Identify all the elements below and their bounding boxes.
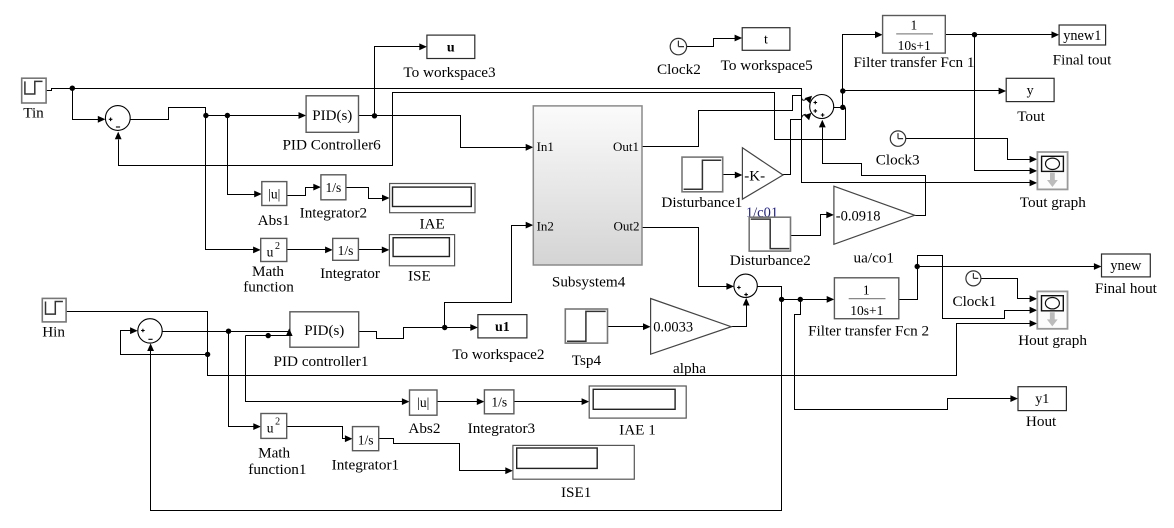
- svg-text:Filter transfer Fcn 2: Filter transfer Fcn 2: [808, 323, 929, 340]
- wire: branch down to Abs2: [246, 336, 410, 406]
- label Hin: [42, 324, 65, 341]
- label Hout: [1026, 413, 1057, 430]
- wire: Sum2 output up to Filter transfer Fcn 1: [843, 31, 883, 107]
- label Final hout: [1095, 280, 1158, 297]
- wire: Hin branch to Sum4 + input: [121, 327, 208, 354]
- To workspace2 block u1: [478, 315, 527, 338]
- label Clock1: [952, 293, 996, 310]
- svg-text:-K-: -K-: [744, 168, 765, 184]
- wire: Sum1 output to PID Controller6 input: [131, 108, 307, 120]
- svg-text:In2: In2: [537, 218, 554, 233]
- label ua/co1: [854, 249, 894, 266]
- wire: gain alpha output to Sum3 bottom + input: [732, 298, 750, 327]
- wire: Abs1 to Integrator2: [287, 184, 321, 196]
- label Disturbance1: [661, 194, 742, 211]
- svg-text:function1: function1: [248, 461, 306, 478]
- wire: Integrator to ISE display: [359, 247, 390, 254]
- ynew1 block Final tout: [1059, 25, 1106, 45]
- wire: Disturbance2 to gain -0.0918: [791, 212, 834, 236]
- junction dot on ynew1 line: [972, 32, 977, 37]
- svg-text:Hout: Hout: [1026, 413, 1057, 430]
- svg-text:10s+1: 10s+1: [850, 303, 883, 318]
- svg-text:Integrator3: Integrator3: [468, 420, 535, 437]
- junction dot on lower segment: [266, 333, 271, 338]
- label 1/c01: [746, 205, 778, 221]
- arrowhead into PID controller1 input: [286, 328, 293, 336]
- junction dot Sum1-out branch B: [225, 113, 230, 118]
- svg-text:y: y: [1027, 84, 1034, 99]
- step source Disturbance1: [682, 157, 723, 192]
- label Hout graph: [1018, 332, 1087, 349]
- svg-text:ISE1: ISE1: [561, 484, 591, 501]
- svg-text:To workspace2: To workspace2: [452, 346, 544, 363]
- label alpha: [673, 360, 706, 377]
- label Disturbance2: [730, 252, 811, 269]
- svg-text:To workspace5: To workspace5: [721, 57, 813, 74]
- svg-text:1/s: 1/s: [326, 180, 342, 195]
- ISE1 display: [513, 445, 634, 479]
- PID controller1 block: [290, 312, 359, 347]
- gain alpha triangle: [651, 299, 732, 355]
- svg-text:1: 1: [863, 283, 870, 298]
- svg-text:Clock2: Clock2: [657, 61, 701, 78]
- wire: Disturbance1 to gain -K-: [723, 172, 743, 179]
- wire: Integrator2 to IAE display: [346, 188, 390, 202]
- junction dot Sum2 output: [840, 105, 845, 110]
- Math function1 u2 block: [261, 414, 287, 439]
- wire: Clock2 to t To workspace5: [687, 35, 743, 47]
- svg-text:Out2: Out2: [614, 218, 640, 233]
- label Integrator1: [332, 457, 399, 474]
- label Tsp4: [572, 352, 602, 369]
- svg-text:Abs2: Abs2: [408, 420, 440, 437]
- label Filter transfer Fcn 2: [808, 323, 929, 340]
- wire: PID controller1 output to u1 To workspace2: [359, 324, 478, 338]
- y block Tout: [1006, 78, 1054, 101]
- svg-text:1/s: 1/s: [358, 433, 374, 448]
- junction dot Sum4 output branch: [226, 329, 231, 334]
- svg-text:t: t: [764, 33, 768, 48]
- Integrator1 block: [353, 427, 379, 451]
- svg-text:u: u: [447, 41, 455, 56]
- wire: Sum4 output to PID controller1 input: [163, 331, 289, 333]
- junction dot Hout to y1 branch: [798, 297, 803, 302]
- label IAE 1: [619, 422, 656, 439]
- svg-text:Tin: Tin: [23, 105, 44, 122]
- wire: Math function to Integrator: [287, 247, 333, 254]
- wire: PID Controller6 output to Subsystem4 In1: [359, 116, 534, 151]
- label Tin: [23, 105, 44, 122]
- svg-text:Tsp4: Tsp4: [572, 352, 602, 369]
- sum junction Sum3: [734, 274, 757, 297]
- junction dot on vertical to y block: [840, 88, 845, 93]
- svg-text:Clock1: Clock1: [952, 293, 996, 310]
- junction dot Sum1-out branch A: [203, 113, 208, 118]
- svg-text:Integrator1: Integrator1: [332, 457, 399, 474]
- Integrator3 block: [484, 390, 514, 414]
- svg-text:2: 2: [275, 241, 280, 252]
- Abs1 block: [262, 182, 287, 206]
- svg-text:IAE: IAE: [419, 216, 444, 233]
- svg-text:u: u: [267, 420, 274, 435]
- wire: branch up to Subsystem4 In2: [445, 222, 534, 328]
- label Final tout: [1053, 52, 1112, 69]
- wire: Hin output to junction, long line to Hout graph bottom input: [67, 312, 1038, 376]
- wire: Tin output with junction, long set-point line to Tout graph bottom input: [47, 89, 1038, 187]
- svg-text:ynew1: ynew1: [1063, 28, 1101, 44]
- label To workspace2: [452, 346, 544, 363]
- wire: Sum3 output to Filter transfer Fcn 2: [758, 287, 835, 303]
- wire: gain -0.0918 output to Sum2 bottom + input: [819, 120, 926, 216]
- label PID Controller6: [282, 137, 381, 154]
- label Abs1: [258, 212, 290, 229]
- svg-text:Final hout: Final hout: [1095, 280, 1158, 297]
- sum junction Sum2: [804, 95, 834, 121]
- svg-text:|u|: |u|: [268, 186, 280, 201]
- label Tout graph: [1020, 194, 1086, 211]
- label ISE1: [561, 484, 591, 501]
- wire: Tin branch down to Sum1 + input: [73, 89, 106, 123]
- step source Tin: [22, 78, 46, 103]
- wire: branch right to y block: [843, 88, 1007, 95]
- junction dot Sum3 output down: [779, 297, 784, 302]
- wire: Filter Fcn 2 output up to ynew line: [899, 256, 1038, 319]
- sum junction Sum4: [138, 319, 162, 343]
- wire: branch down to Math function u2: [206, 116, 261, 254]
- label ISE: [408, 268, 431, 285]
- wire: lower parallel segment into PID controller1: [246, 335, 290, 337]
- wire: Clock3 to Tout graph top input: [906, 139, 1038, 163]
- step source Disturbance2: [749, 217, 790, 251]
- svg-text:1/s: 1/s: [491, 395, 507, 410]
- svg-text:alpha: alpha: [673, 360, 706, 377]
- label To workspace3: [403, 64, 495, 81]
- label Abs2: [408, 420, 440, 437]
- svg-text:u: u: [267, 245, 274, 260]
- curve into Sum2 lower-left arrow: [801, 114, 805, 118]
- y1 block Hout: [1018, 387, 1066, 411]
- junction dot on Tin line: [70, 86, 75, 91]
- Filter transfer Fcn 1 block: [883, 16, 946, 54]
- label Integrator3: [468, 420, 535, 437]
- clock Clock1: [966, 271, 981, 286]
- PID Controller6 block: [306, 96, 358, 133]
- wire: branch up to To workspace3 u: [375, 43, 427, 115]
- svg-text:IAE 1: IAE 1: [619, 422, 656, 439]
- wire: branch right to ynew Final hout: [918, 263, 1102, 270]
- ISE display: [389, 235, 454, 266]
- svg-text:ynew: ynew: [1110, 258, 1142, 274]
- svg-text:Integrator2: Integrator2: [300, 205, 367, 222]
- label Math function: [243, 263, 294, 296]
- wire: Subsystem4 Out1 to Sum2 first + input: [643, 96, 802, 147]
- wire: Math function1 to Integrator1: [287, 427, 353, 443]
- Filter transfer Fcn 2 block: [834, 278, 898, 319]
- svg-text:1: 1: [911, 18, 918, 33]
- sum junction Sum1: [105, 106, 130, 131]
- junction dot on filtered hout: [915, 264, 920, 269]
- To workspace5 block t: [742, 28, 790, 51]
- step source Hin: [42, 298, 66, 322]
- svg-text:Hout graph: Hout graph: [1018, 332, 1087, 349]
- label Subsystem4: [552, 274, 626, 291]
- svg-text:Tout: Tout: [1017, 108, 1045, 125]
- scope Hout graph: [1037, 291, 1067, 328]
- wire: Filter Fcn 1 output to ynew1: [946, 31, 1060, 38]
- wire: branch down to Abs1: [228, 116, 262, 198]
- wire: Tsp4 to gain alpha: [608, 323, 651, 330]
- wire: Sum2 output to right with junction: [834, 107, 846, 109]
- svg-text:Final tout: Final tout: [1053, 52, 1112, 69]
- svg-text:u1: u1: [495, 320, 510, 335]
- svg-text:Disturbance1: Disturbance1: [661, 194, 742, 211]
- svg-text:ua/co1: ua/co1: [854, 249, 894, 266]
- label Integrator2: [300, 205, 367, 222]
- label Tout: [1017, 108, 1045, 125]
- wire: Tin-line branch continuation down (overlap segment): [801, 140, 803, 183]
- Subsystem4 block: [533, 106, 642, 265]
- svg-text:Tout graph: Tout graph: [1020, 194, 1086, 211]
- wire: Abs2 to Integrator3: [437, 398, 485, 405]
- svg-text:PID Controller6: PID Controller6: [282, 137, 381, 154]
- svg-text:0.0033: 0.0033: [653, 320, 693, 336]
- svg-text:|u|: |u|: [417, 395, 429, 410]
- label Math function1: [248, 445, 306, 479]
- svg-text:PID controller1: PID controller1: [274, 353, 369, 370]
- gain -K- triangle: [742, 148, 783, 199]
- clock Clock3: [890, 131, 905, 146]
- curve into Sum2 upper-left arrow: [801, 97, 806, 101]
- label To workspace5: [721, 57, 813, 74]
- svg-text:Math: Math: [252, 263, 284, 280]
- svg-text:Filter transfer Fcn 1: Filter transfer Fcn 1: [853, 54, 974, 71]
- junction dot on Hin line: [205, 352, 210, 357]
- gain -0.0918 triangle: [834, 186, 915, 244]
- svg-text:y1: y1: [1035, 392, 1049, 407]
- label Clock3: [876, 152, 920, 169]
- svg-text:In1: In1: [537, 139, 554, 154]
- junction dot on PID6 output: [372, 113, 377, 118]
- svg-text:function: function: [243, 279, 294, 296]
- label IAE: [419, 216, 444, 233]
- wire: Subsystem4 Out2 to Sum3 + input: [643, 228, 735, 290]
- svg-text:To workspace3: To workspace3: [403, 64, 495, 81]
- To workspace3 block u: [427, 35, 475, 58]
- svg-text:Abs1: Abs1: [258, 212, 290, 229]
- clock Clock2: [670, 38, 686, 54]
- Math function u2 block: [261, 238, 287, 261]
- wire: branch to y1 Hout record: [795, 300, 1019, 410]
- wire: branch down to Math function1 u2: [229, 332, 261, 431]
- wire: Clock1 to Hout graph top input: [981, 279, 1038, 303]
- svg-text:Integrator: Integrator: [320, 265, 380, 282]
- wire: Tout feedback loop to Sum1 minus input: [115, 93, 846, 166]
- IAE display: [390, 184, 475, 213]
- junction dot on u1 line: [442, 325, 447, 330]
- ynew block Final hout: [1102, 254, 1151, 277]
- svg-text:-0.0918: -0.0918: [836, 208, 881, 224]
- svg-text:1/s: 1/s: [338, 243, 354, 258]
- step source Tsp4: [565, 309, 607, 343]
- svg-text:Clock3: Clock3: [876, 152, 920, 169]
- svg-text:PID(s): PID(s): [304, 323, 344, 339]
- svg-text:Subsystem4: Subsystem4: [552, 274, 626, 291]
- svg-text:Math: Math: [258, 445, 290, 462]
- svg-text:10s+1: 10s+1: [898, 38, 931, 53]
- svg-text:Out1: Out1: [613, 139, 639, 154]
- Integrator block: [333, 238, 359, 260]
- wire: gain -K- output to Sum2 second + input: [783, 120, 802, 175]
- label Filter transfer Fcn 1: [853, 54, 974, 71]
- wire: Integrator1 to ISE1 display: [379, 439, 513, 475]
- wire: Integrator3 to IAE 1 display: [514, 398, 590, 405]
- svg-text:PID(s): PID(s): [312, 108, 352, 124]
- scope Tout graph: [1037, 152, 1067, 189]
- IAE 1 display: [589, 386, 686, 418]
- wire: Hout feedback down-left to Sum4 minus input: [147, 300, 781, 511]
- svg-text:Hin: Hin: [42, 324, 65, 341]
- Integrator2 block: [321, 175, 346, 200]
- svg-text:ISE: ISE: [408, 268, 431, 285]
- svg-text:2: 2: [275, 417, 280, 428]
- label Clock2: [657, 61, 701, 78]
- svg-text:Disturbance2: Disturbance2: [730, 252, 811, 269]
- label PID controller1: [274, 353, 369, 370]
- Abs2 block: [410, 390, 438, 415]
- wire: branch down to Tout graph middle input: [975, 35, 1038, 175]
- label Integrator: [320, 265, 380, 282]
